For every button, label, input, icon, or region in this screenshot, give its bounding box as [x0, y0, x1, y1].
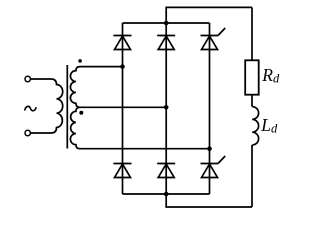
transformer secondary winding bottom — [70, 107, 80, 148]
wire phase A — [80, 66, 123, 68]
diode VD1 — [114, 36, 132, 50]
wire leg 3 — [209, 23, 211, 194]
wire top terminal to primary — [30, 78, 51, 80]
wire leg 2 — [165, 23, 167, 194]
thyristor VT2 — [201, 156, 226, 178]
node bottom bus junction — [164, 192, 169, 197]
polarity dot top — [78, 59, 82, 63]
resistor Rd — [245, 60, 259, 94]
thyristor VT1 — [201, 28, 226, 50]
wire bottom bus — [123, 193, 210, 195]
ac source terminal top — [25, 76, 30, 81]
wire phase C — [80, 148, 210, 150]
polarity dot bottom — [79, 111, 83, 115]
svg-text:Ld: Ld — [260, 115, 278, 135]
wire phase B — [80, 106, 167, 108]
ac source terminal bottom — [25, 130, 30, 135]
wire right branch top — [251, 7, 253, 60]
svg-text:Rd: Rd — [261, 65, 280, 85]
wire positive output — [166, 7, 252, 23]
diode VD3 — [114, 164, 132, 178]
node top bus junction — [164, 21, 169, 26]
node phase A junction — [120, 64, 125, 69]
transformer core — [66, 65, 68, 149]
wire bottom terminal to primary — [30, 132, 51, 134]
wire resistor to inductor — [251, 95, 253, 107]
wire leg 1 — [122, 23, 124, 194]
wire inductor to bottom — [251, 145, 253, 207]
ac source tilde — [25, 106, 37, 110]
diode VD4 — [157, 164, 175, 178]
transformer secondary winding top — [70, 67, 80, 108]
wire top bus — [123, 22, 210, 24]
inductor Ld — [252, 107, 258, 145]
node phase B junction — [164, 105, 169, 110]
transformer primary winding — [51, 79, 63, 133]
wire negative output — [166, 194, 252, 207]
diode VD2 — [157, 36, 175, 50]
node phase C junction — [207, 146, 212, 151]
